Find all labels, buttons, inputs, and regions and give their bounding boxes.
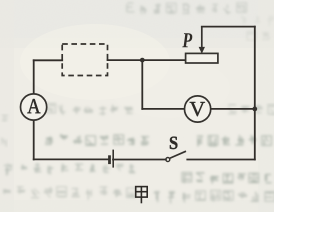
- wire: top-left horizontal to dashed box: [34, 59, 63, 61]
- wire: branch down from node: [141, 60, 143, 109]
- ammeter A1: [20, 94, 46, 120]
- wire: left vertical upper: [33, 60, 35, 93]
- battery cell: [110, 150, 114, 168]
- label 甲 (drawn strokes): [136, 187, 148, 204]
- label S: [170, 137, 177, 149]
- wire: right vertical: [254, 27, 256, 160]
- node B (junction dot right): [252, 107, 257, 112]
- voltmeter V1: [185, 96, 211, 122]
- wire: left vertical lower: [33, 121, 35, 160]
- wire: switch to bottom-right corner: [187, 159, 255, 161]
- battery short plate (negative): [108, 155, 111, 164]
- switch S: [166, 151, 186, 161]
- dashed box (unknown component): [62, 44, 107, 76]
- rheostat slider arrow: [199, 27, 204, 53]
- wire: voltmeter right to node B: [211, 108, 255, 110]
- node A (junction dot left): [140, 58, 145, 63]
- wire: bottom left to battery: [34, 158, 109, 160]
- wire: branch to voltmeter: [142, 108, 184, 110]
- rheostat P body: [186, 53, 218, 63]
- label P: [182, 33, 192, 47]
- wire: top horizontal to slider: [202, 26, 255, 28]
- battery long plate (positive): [112, 150, 114, 168]
- faint bleed-through text: [127, 3, 247, 15]
- wire: box right to rheostat left: [108, 59, 186, 61]
- paper background tones: [0, 0, 274, 212]
- wire: battery to switch: [113, 159, 166, 161]
